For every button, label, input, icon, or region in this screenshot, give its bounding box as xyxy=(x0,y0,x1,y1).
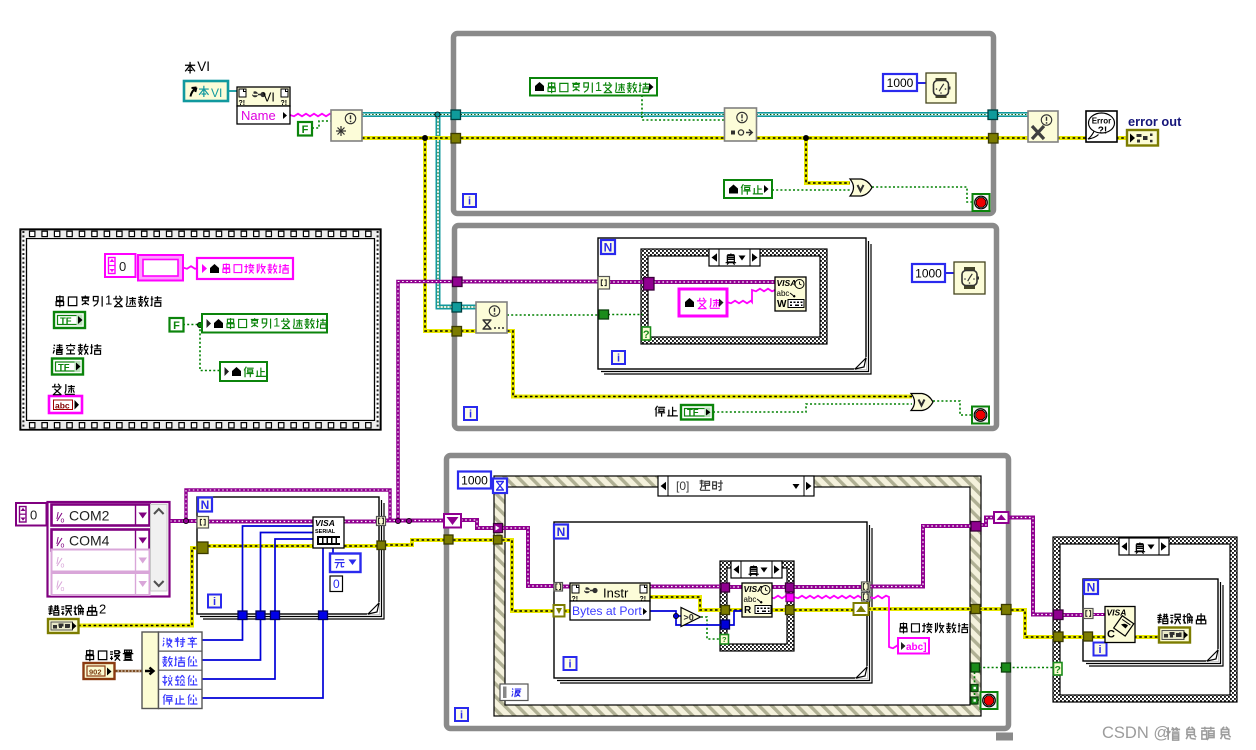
case selector 真 (send) xyxy=(709,249,760,266)
error out indicator (top right) xyxy=(1127,130,1158,146)
svg-text:Error: Error xyxy=(1092,117,1112,126)
while loop 3 (bottom) (while loop border) xyxy=(447,456,1009,729)
local variable 串口索引1发送数据 (frame, green) xyxy=(202,314,327,333)
VI refnum constant 本VI xyxy=(184,81,228,101)
wire: data bits wire xyxy=(202,612,261,660)
svg-text:VISA: VISA xyxy=(777,278,797,288)
wire: 1000 to wait ms loop1 xyxy=(917,82,926,84)
svg-text:TF: TF xyxy=(60,316,72,327)
or gate loop1 xyxy=(850,179,872,196)
junction error loop1 xyxy=(803,135,808,140)
node: close reference X (top right) xyxy=(1028,111,1058,142)
node: simple error handler (Error ?!) xyxy=(1086,111,1117,142)
wire: bytes to comparison xyxy=(676,615,681,617)
while loop 2 (middle) (while loop border) xyxy=(455,226,997,429)
wire: read buffer wire to local variable xyxy=(870,596,900,649)
node: wait ms loop1 (wait ms clock) xyxy=(926,73,956,103)
wire: VISA resource inside event to for loop C xyxy=(502,528,557,586)
auto-index tunnel for loop A left xyxy=(197,517,209,529)
svg-text:o: o xyxy=(61,543,65,550)
boolean control TF (停止 loop2) xyxy=(681,405,713,420)
shift register loop3 left (VISA) xyxy=(444,514,461,528)
tunnel boolean event right xyxy=(971,663,980,672)
wire: error wire down to loop2 wait node xyxy=(425,138,476,331)
VISA resource array control (COM2/COM4) xyxy=(48,502,170,597)
tunnel VISA case read right xyxy=(786,583,795,592)
small green tunnel event 1 xyxy=(971,685,978,692)
wire: VISA resource into VISA write xyxy=(654,280,775,284)
node: flush event queue (loop1) xyxy=(725,108,757,141)
wire: VISA resource into VISA serial xyxy=(208,520,313,524)
svg-text:?: ? xyxy=(643,329,650,341)
tunnel error event left xyxy=(494,536,503,545)
wire: stop bits wire xyxy=(202,612,323,698)
svg-text:>0: >0 xyxy=(684,613,694,623)
tunnel error loop1 left xyxy=(451,134,461,144)
svg-text:abc: abc xyxy=(744,595,757,604)
wire: VI refnum wire down to loop2 xyxy=(438,115,476,308)
svg-text:0: 0 xyxy=(30,508,37,523)
svg-text:Bytes at Port: Bytes at Port xyxy=(572,604,642,618)
svg-text:abc: abc xyxy=(55,401,70,411)
N for loop C xyxy=(554,525,568,540)
wire: boolean inside event border xyxy=(974,672,976,698)
node: wait node with hourglass (loop2) xyxy=(476,302,507,333)
wire: comparison to case ? terminal xyxy=(701,617,721,639)
wire: wait node to for loop B xyxy=(507,314,600,316)
tunnel VISA case send xyxy=(644,278,655,291)
wire: error wire from 错误输出2 to for loop A xyxy=(78,548,202,626)
auto-index tunnel for loop C right purple xyxy=(862,582,871,591)
stop terminal loop3 xyxy=(981,692,998,709)
wire: false const to open node xyxy=(312,121,333,128)
svg-text:i: i xyxy=(568,659,571,671)
local variable 停止 (loop1) xyxy=(724,180,772,198)
svg-text:F: F xyxy=(173,320,180,332)
i while loop 1 xyxy=(463,194,476,208)
while loop 1 (top) (while loop border) xyxy=(454,34,994,214)
auto-index tunnel for loop A right xyxy=(377,517,386,526)
wire: VISA resource property node to case read xyxy=(650,585,723,589)
auto-index tunnel for loop C left xyxy=(554,583,563,592)
N for loop D xyxy=(1084,580,1098,595)
wire: stop local to or gate xyxy=(772,189,850,191)
wire: error wire VISA close to indicator xyxy=(1134,635,1162,639)
svg-text:[0]: [0] xyxy=(676,479,689,493)
wire: error wire case to shift register xyxy=(794,608,856,612)
wire: serial settings cluster wire xyxy=(114,670,144,673)
local variable 发送 (loop2, pink) xyxy=(679,289,727,316)
wire: error wire into for loop D xyxy=(1063,635,1085,639)
boolean control TF (清空数据) xyxy=(52,359,83,375)
numeric index spinner (pink, frame) xyxy=(105,254,136,277)
wire: VISA resource out of VISA serial xyxy=(344,520,381,524)
tunnel error loop3 left xyxy=(444,535,453,544)
junction VISA resource 2 xyxy=(406,518,411,523)
label 清空数据 xyxy=(53,344,101,355)
i while loop 3 xyxy=(455,708,468,722)
false constant F xyxy=(298,122,312,136)
wire: error wire close-to-handler xyxy=(1057,136,1086,140)
tunnel string case read xyxy=(786,594,794,602)
auto-index tunnel for loop B left xyxy=(598,277,610,290)
wire: VISA resource from array xyxy=(170,519,200,523)
numeric constant 1000 (loop2) xyxy=(912,264,945,282)
svg-text:i: i xyxy=(617,353,620,365)
wire: send string wire to VISA write xyxy=(727,289,775,304)
wire: stop bits into VISA serial xyxy=(322,548,324,611)
svg-text:?: ? xyxy=(1055,664,1061,676)
wire: boolean into case send border xyxy=(608,314,643,316)
svg-text:?: ? xyxy=(722,635,727,644)
wire: bytes at port wire xyxy=(650,611,722,625)
svg-text:F: F xyxy=(302,124,309,136)
svg-text:abc: abc xyxy=(777,289,790,298)
tunnel boolean loop3 right xyxy=(1002,663,1011,672)
tunnel teal loop2 left xyxy=(452,303,462,313)
junction false const xyxy=(197,322,202,327)
svg-text:VISA: VISA xyxy=(744,584,764,594)
wire: VISA resource to case send xyxy=(609,280,645,284)
svg-text:TF: TF xyxy=(687,408,699,419)
svg-text:o: o xyxy=(61,586,65,593)
svg-text:i: i xyxy=(469,409,472,421)
tunnel error case read left xyxy=(721,606,730,615)
case selector 真 (close) xyxy=(1119,538,1169,555)
tunnel error loop1 right xyxy=(989,134,999,144)
error cluster indicator 错误输出 (bottom right) xyxy=(1159,628,1190,643)
wire: VISA resource out of VISA read xyxy=(770,585,787,589)
svg-text:SERIAL: SERIAL xyxy=(315,529,336,535)
wire: TF stop to or gate loop2 xyxy=(713,404,912,412)
for loop B (send) (for loop border) xyxy=(598,238,871,374)
wire: data bits into VISA serial xyxy=(261,533,315,612)
event timeout hourglass terminal xyxy=(493,479,507,494)
stop terminal loop1 xyxy=(973,194,990,211)
i for loop A xyxy=(208,595,221,609)
svg-text:i: i xyxy=(468,196,471,208)
svg-text:VI: VI xyxy=(197,59,210,74)
svg-text:N: N xyxy=(604,241,613,255)
wire: VISA resource bypass above for loop A xyxy=(186,490,390,521)
unbundle by name node xyxy=(142,632,202,709)
svg-text:COM2: COM2 xyxy=(69,508,110,524)
wire: error wire into VISA read xyxy=(729,608,742,612)
tunnel error for loop D xyxy=(1084,632,1093,641)
wire: read buffer wire in for loop C xyxy=(794,596,864,599)
svg-text:?!: ?! xyxy=(281,100,288,107)
node: wait ms loop2 (wait ms clock) xyxy=(954,262,985,294)
wire: VISA resource SR to event structure xyxy=(461,520,497,528)
string constant (empty, pink) xyxy=(138,255,183,281)
event structure border xyxy=(494,476,981,716)
wire: read buffer wire out of VISA read xyxy=(770,596,787,599)
local variable 串口接收数据 (frame, pink) xyxy=(197,258,293,279)
node: property node VI (Name) xyxy=(237,87,290,124)
case structure (close true case) (case structure border) xyxy=(1053,537,1237,702)
wire: 1000 to wait ms loop2 xyxy=(945,272,954,274)
small green tunnel event 2 xyxy=(971,697,978,704)
node: property node Instr (Bytes at Port) xyxy=(570,583,650,620)
svg-text:0: 0 xyxy=(119,259,126,274)
wire: F const branch to stop local xyxy=(200,325,222,371)
comparison greater than zero xyxy=(681,608,701,627)
boolean control TF (串口索引1发送数据) xyxy=(54,312,85,328)
error cluster indicator 错误输出 2 xyxy=(48,619,79,633)
wire: error wire property node to case xyxy=(650,597,723,610)
svg-text:?!: ?! xyxy=(1098,126,1107,137)
wire: error wire into VISA close xyxy=(1092,635,1107,639)
node: VISA configure serial port xyxy=(313,517,344,548)
tunnel VISA loop2 left xyxy=(453,277,463,287)
label 串口索引1发送数据 (panel) xyxy=(56,293,161,308)
auto-index tunnel for loop D left xyxy=(1084,609,1094,619)
wire: error wire to or gate loop1 xyxy=(806,138,850,183)
shift register for loop C left (error) xyxy=(554,605,565,617)
wire: or gate to stop terminal loop2 xyxy=(933,401,973,415)
tunnel error event right xyxy=(971,605,980,614)
svg-text:VISA: VISA xyxy=(315,518,335,528)
svg-text:1000: 1000 xyxy=(915,266,942,280)
numeric index spinner (purple, VISA array) xyxy=(16,503,47,526)
local variable 停止 (frame, green) xyxy=(220,362,267,381)
junction bytes at port xyxy=(673,613,678,618)
tunnel VISA event right xyxy=(971,522,981,532)
case read ? terminal xyxy=(720,635,729,645)
wire: error wire across top xyxy=(362,136,1028,140)
wire: VISA resource case to for loop C edge xyxy=(794,585,864,589)
node: VISA write xyxy=(775,277,806,311)
wire: VISA resource into VISA read xyxy=(729,585,742,589)
shift register loop3 right (VISA) xyxy=(994,512,1009,523)
wire: error wire inside event to for loop C xyxy=(502,540,557,611)
tunnel blue stop bits xyxy=(319,611,328,620)
for loop D (close) (for loop border) xyxy=(1083,579,1223,666)
wire: error wire loop3 to case close xyxy=(1011,610,1055,637)
case structure (read true case) (case structure border) xyxy=(720,561,794,651)
svg-text:error out: error out xyxy=(1128,114,1182,129)
enum constant 无 xyxy=(330,554,361,573)
svg-text:i: i xyxy=(1098,644,1101,656)
svg-text:1: 1 xyxy=(273,316,280,330)
wire: parity into VISA serial xyxy=(275,539,314,611)
tunnel error loop2 left xyxy=(452,327,462,337)
case send ? terminal xyxy=(642,327,651,341)
wire: parity wire xyxy=(202,612,275,679)
wire: error wire to event border xyxy=(868,607,973,611)
wire: byte count into VISA read xyxy=(729,611,742,625)
svg-text:1000: 1000 xyxy=(461,473,488,487)
case selector 真 (read) xyxy=(731,561,782,578)
svg-text:?!: ?! xyxy=(640,596,647,603)
wire: baud rate into VISA serial xyxy=(243,526,315,611)
svg-text:CSDN @: CSDN @ xyxy=(1102,724,1170,742)
for loop C (read) (for loop border) xyxy=(554,522,872,683)
svg-text:COM4: COM4 xyxy=(69,533,110,549)
wire: error wire out of VISA serial xyxy=(344,544,381,548)
string control abc (发送) xyxy=(49,396,82,413)
case structure (send true case) (case structure border) xyxy=(641,249,827,344)
tunnel boolean for loop B xyxy=(599,310,609,319)
wire: error wire loop2 to or gate xyxy=(507,331,912,397)
svg-text:o: o xyxy=(61,518,65,525)
wire: VISA resource loop3 to case close xyxy=(1008,518,1055,615)
tunnel blue data xyxy=(256,611,265,620)
label 停止 (loop2) xyxy=(655,406,678,417)
local variable 串口接收数据 abc (event, pink) xyxy=(898,638,929,654)
auto-index tunnel for loop C right pink xyxy=(862,593,871,602)
event source label box 源 xyxy=(500,684,528,701)
tunnel error case close xyxy=(1054,632,1064,642)
numeric constant 1000 (event timeout) xyxy=(458,472,491,489)
wire: error wire out of VISA read xyxy=(770,608,787,612)
wire: error wire handler-to-indicator xyxy=(1116,136,1130,140)
wire: VISA resource into for loop B xyxy=(462,280,600,284)
svg-text:1: 1 xyxy=(595,80,602,94)
wire: Name string wire xyxy=(290,114,332,117)
wire: or gate to stop terminal loop1 xyxy=(872,187,974,202)
wire: VISA resource to event border right xyxy=(870,526,973,587)
i while loop 2 xyxy=(464,407,477,421)
junction error top xyxy=(422,135,427,140)
flat sequence structure frame xyxy=(20,229,381,430)
tunnel error loop3 right xyxy=(1002,605,1012,615)
dynamic event tunnel purple (event left) xyxy=(494,524,503,533)
svg-text:TF: TF xyxy=(58,363,70,374)
wire: refnum to property node xyxy=(228,90,238,92)
N for loop A xyxy=(198,498,212,513)
wire: VI refnum wire across top xyxy=(362,112,1028,117)
wire: error wire into VISA serial xyxy=(208,544,313,548)
svg-text:W: W xyxy=(777,299,787,310)
wire: VISA resource for loop A to loop3 SR xyxy=(385,519,448,523)
shift register for loop C right (error) xyxy=(854,603,869,615)
label 串口设置 xyxy=(86,650,133,662)
svg-text:2: 2 xyxy=(99,602,106,617)
tunnel error for loop A left xyxy=(197,542,208,554)
wire: error wire for loop A to loop3 xyxy=(385,540,448,545)
wire: error wire event to loop3 border xyxy=(979,607,1003,611)
svg-text:R: R xyxy=(744,605,752,616)
serial settings cluster control 串口设置 xyxy=(84,663,115,679)
junction VISA resource left xyxy=(183,518,188,523)
wire: string constant wire xyxy=(183,266,199,269)
wire: VISA resource into property node xyxy=(562,585,572,589)
wire: F const to local xyxy=(183,324,203,326)
tunnel blue baud xyxy=(238,611,247,620)
wire: VISA serial to enum xyxy=(332,548,334,555)
N for loop B xyxy=(601,240,615,255)
wire: local to flush node xyxy=(642,95,726,120)
wire: error wire into event structure xyxy=(453,538,497,542)
svg-text:C: C xyxy=(1107,629,1115,641)
tunnel VISA case close xyxy=(1054,610,1064,620)
svg-text:N: N xyxy=(201,498,210,512)
wire: VISA resource into for loop D xyxy=(1063,613,1085,617)
svg-text:VI: VI xyxy=(263,91,275,105)
svg-text:1000: 1000 xyxy=(887,76,914,90)
wire: VISA resource event to loop3 SR right xyxy=(981,518,995,526)
svg-text:0: 0 xyxy=(333,577,340,591)
svg-text:Name: Name xyxy=(241,108,276,123)
tunnel teal loop1 left xyxy=(451,110,461,120)
numeric constant 0 xyxy=(330,576,343,592)
tunnel byte count case read xyxy=(721,620,730,629)
svg-text:1: 1 xyxy=(105,293,112,308)
tunnel blue parity xyxy=(271,611,280,620)
wire: error wire into property node xyxy=(564,609,572,613)
svg-text:o: o xyxy=(61,563,65,570)
node: VISA close xyxy=(1105,607,1135,643)
loop3 corner shadow xyxy=(996,733,1013,741)
false constant F xyxy=(170,318,184,332)
wire: boolean to stop terminal loop3 xyxy=(977,699,982,701)
for loop A (VISA serial config) (for loop border) xyxy=(197,497,384,619)
label 本VI xyxy=(185,59,210,74)
i for loop B xyxy=(612,351,625,365)
event structure selector [0] 超时 xyxy=(658,476,814,496)
svg-text:?!: ?! xyxy=(239,100,246,107)
or gate loop2 xyxy=(911,394,933,411)
node: Open VI Reference (asterisk) xyxy=(331,110,362,141)
wire: baud rate wire xyxy=(202,612,243,640)
svg-text:abc]: abc] xyxy=(906,642,927,653)
label 串口接收数据 (event) xyxy=(900,622,968,633)
label 错误输出 2 xyxy=(48,602,106,617)
tunnel error for loop A right xyxy=(377,541,386,550)
svg-text:i: i xyxy=(460,710,463,722)
case close ? terminal xyxy=(1054,663,1063,677)
svg-text:?!: ?! xyxy=(572,596,579,603)
svg-text:VI: VI xyxy=(211,86,222,100)
wire: case close ? to event structure xyxy=(979,667,1055,669)
svg-text:i: i xyxy=(213,596,216,608)
svg-text:N: N xyxy=(557,525,566,539)
label 错误输出 (bottom right) xyxy=(1157,613,1206,624)
tunnel teal loop1 right xyxy=(988,110,998,120)
tunnel error case read right xyxy=(786,606,795,615)
numeric constant 1000 (loop1) xyxy=(883,74,917,91)
wire: VISA resource riser to loop2 xyxy=(398,282,455,522)
label 发送 xyxy=(52,384,75,395)
local variable 串口索引1发送数据 (loop1) xyxy=(530,78,657,96)
stop terminal loop2 xyxy=(972,407,989,424)
i for loop D xyxy=(1094,643,1107,657)
svg-text:Instr: Instr xyxy=(603,586,629,601)
junction teal refnum xyxy=(435,112,440,117)
wire: VISA resource into VISA close xyxy=(1093,613,1107,616)
tunnel VISA case read left xyxy=(721,583,730,592)
node: VISA read xyxy=(742,583,772,617)
svg-text:902: 902 xyxy=(89,668,102,677)
svg-text:N: N xyxy=(1087,581,1096,595)
junction VISA resource riser xyxy=(395,518,400,523)
i for loop C xyxy=(564,657,577,671)
